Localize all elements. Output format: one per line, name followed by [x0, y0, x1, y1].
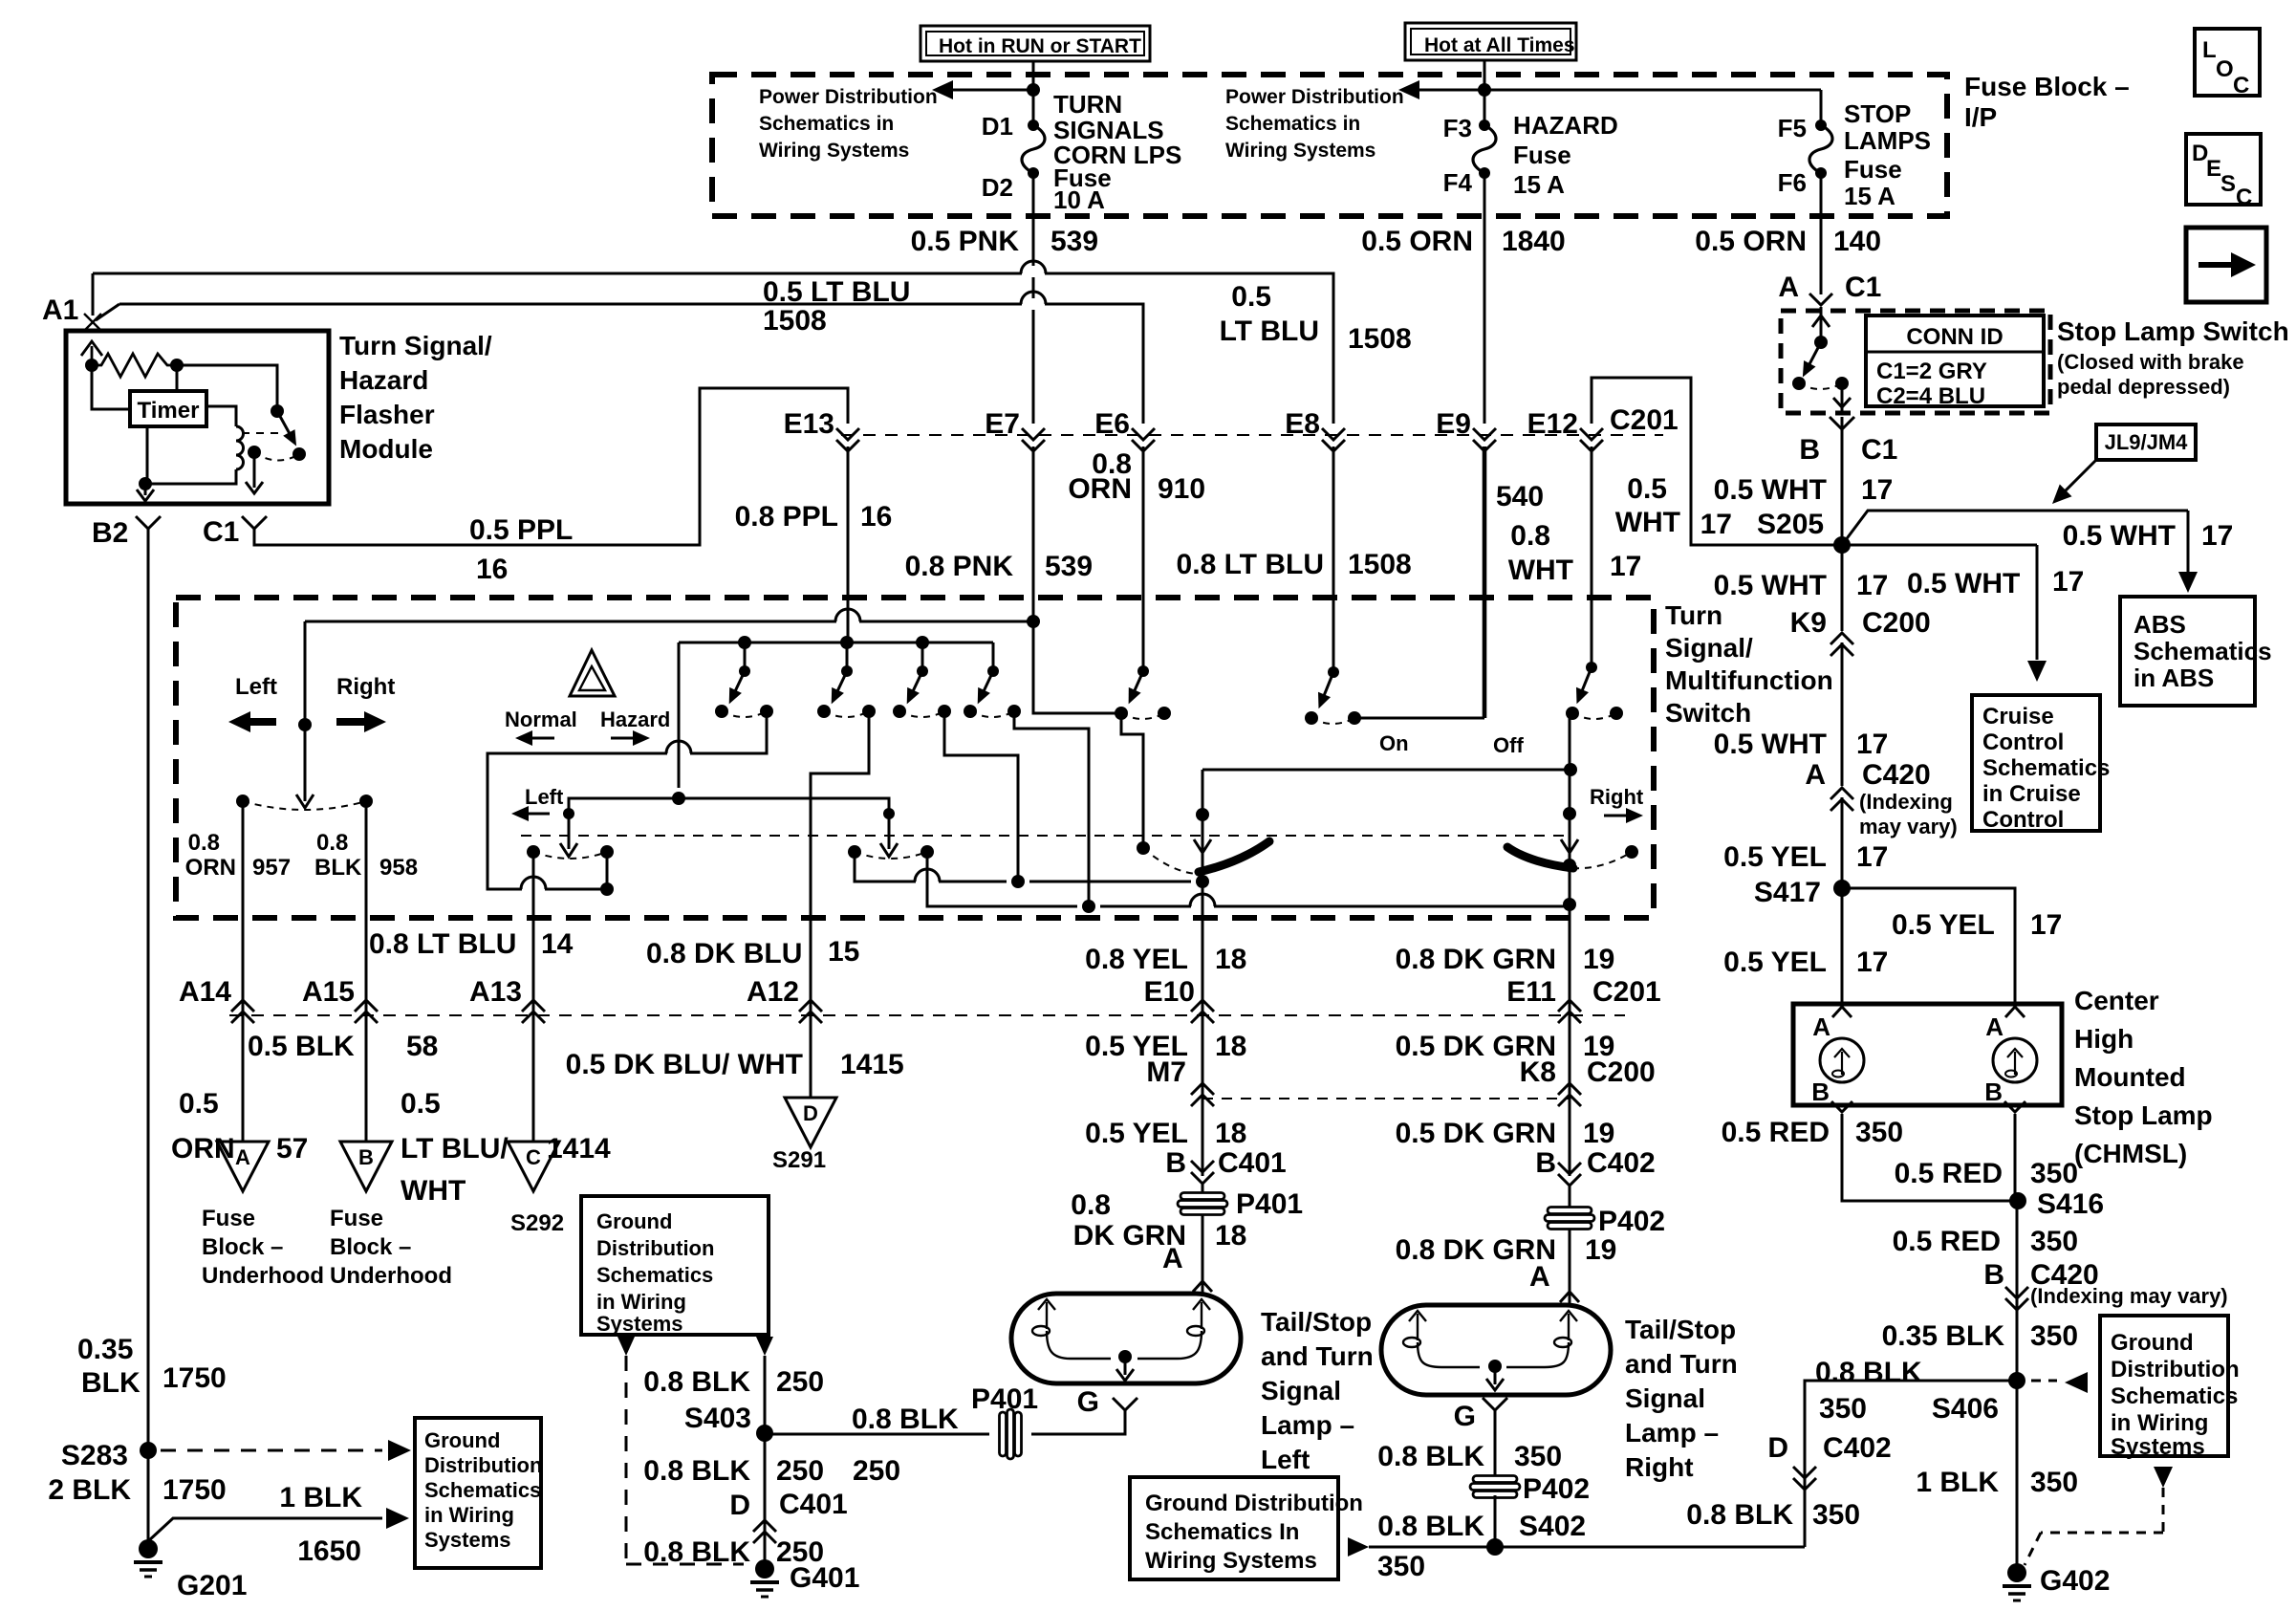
switch pole On E8	[1332, 446, 1335, 672]
svg-text:D2: D2	[982, 173, 1013, 202]
splice S403	[756, 1425, 773, 1442]
wire 1 BLK 1650 to ground box	[148, 1518, 382, 1541]
svg-text:G401: G401	[790, 1562, 859, 1594]
connector E8	[1322, 428, 1345, 440]
svg-text:350: 350	[1855, 1117, 1903, 1148]
svg-text:Systems: Systems	[596, 1312, 683, 1336]
connector C402 D	[1793, 1467, 1816, 1478]
svg-text:(Indexing may vary): (Indexing may vary)	[2030, 1284, 2228, 1308]
wire staircase pole3	[944, 711, 1018, 882]
svg-text:and Turn: and Turn	[1261, 1341, 1374, 1371]
wire from Hot at All Times to fuse F3	[1484, 60, 1486, 90]
svg-text:B: B	[1811, 1078, 1830, 1106]
connector C420	[1830, 799, 1853, 811]
wire E10 column	[1202, 770, 1204, 1021]
triangle D	[785, 1098, 836, 1147]
relay coil	[236, 426, 244, 469]
svg-text:350: 350	[1819, 1393, 1867, 1425]
svg-text:High: High	[2074, 1024, 2134, 1054]
svg-text:1415: 1415	[840, 1049, 904, 1080]
svg-text:Schematics: Schematics	[596, 1263, 713, 1287]
svg-text:P401: P401	[971, 1383, 1038, 1415]
svg-text:C200: C200	[1862, 607, 1931, 639]
svg-text:E9: E9	[1436, 408, 1471, 440]
svg-text:Underhood: Underhood	[202, 1263, 324, 1289]
svg-text:0.8 BLK: 0.8 BLK	[852, 1404, 959, 1435]
svg-text:HAZARD: HAZARD	[1513, 111, 1618, 140]
label box Hot at All Times	[1405, 23, 1576, 60]
svg-text:BLK: BLK	[314, 855, 362, 881]
svg-text:Fuse Block –: Fuse Block –	[1964, 72, 2130, 101]
svg-text:G: G	[1077, 1386, 1099, 1418]
wire from junction to fuse F5	[1484, 89, 1821, 92]
svg-text:0.5: 0.5	[1627, 473, 1667, 505]
module output arrow B2	[137, 484, 154, 501]
svg-text:may vary): may vary)	[1859, 815, 1958, 838]
inline connector P401 ground	[1000, 1412, 1007, 1456]
svg-text:S291: S291	[772, 1147, 826, 1173]
arrow from JL9/JM4	[2061, 460, 2096, 495]
svg-text:WHT: WHT	[1615, 507, 1680, 538]
svg-text:Distribution: Distribution	[424, 1453, 542, 1477]
svg-text:E13: E13	[784, 408, 834, 440]
svg-text:19: 19	[1583, 944, 1614, 975]
svg-text:0.8 BLK: 0.8 BLK	[643, 1455, 750, 1487]
svg-text:Signal: Signal	[1625, 1383, 1705, 1413]
arrow Hazard right	[611, 737, 636, 740]
svg-text:(Closed with brake: (Closed with brake	[2057, 350, 2244, 374]
arrow Normal left	[530, 737, 554, 740]
svg-text:ORN: ORN	[185, 855, 236, 881]
svg-text:0.5 WHT: 0.5 WHT	[1714, 729, 1827, 760]
svg-text:C2=4 BLU: C2=4 BLU	[1876, 383, 1985, 409]
CHMSL left bulb	[1820, 1038, 1864, 1082]
svg-text:2 BLK: 2 BLK	[48, 1474, 131, 1506]
wire 0.8 BLK 350 S406 to C402 D	[1805, 1381, 2017, 1547]
svg-text:0.5 WHT: 0.5 WHT	[1907, 568, 2020, 599]
wire arrow to power distribution right	[1416, 89, 1484, 92]
svg-text:LT BLU: LT BLU	[1220, 316, 1319, 347]
svg-text:A: A	[1778, 272, 1799, 303]
svg-text:L: L	[2202, 37, 2217, 63]
solid left arrow	[228, 711, 276, 732]
svg-text:0.5 YEL: 0.5 YEL	[1085, 1118, 1188, 1149]
svg-text:A1: A1	[42, 294, 78, 326]
svg-text:350: 350	[1377, 1551, 1425, 1582]
svg-text:D1: D1	[982, 112, 1013, 141]
svg-text:S402: S402	[1519, 1511, 1586, 1542]
relay contacts	[292, 447, 306, 461]
resistor	[92, 354, 177, 377]
svg-text:17: 17	[1856, 729, 1888, 760]
svg-text:Fuse: Fuse	[1513, 141, 1571, 169]
wire E6 contact down to turn wafer	[1121, 713, 1143, 848]
wire S205 to E12	[1592, 378, 1842, 545]
svg-text:G201: G201	[177, 1570, 247, 1601]
svg-text:D: D	[729, 1490, 750, 1521]
turn wafer left blade	[563, 808, 574, 819]
wire 0.5 ORN 140 from fuse F6 down	[1820, 173, 1823, 294]
svg-text:A14: A14	[179, 976, 231, 1008]
wire hazard feed to indicator pivot	[304, 621, 307, 725]
svg-text:18: 18	[1215, 1031, 1246, 1062]
svg-text:350: 350	[2030, 1467, 2078, 1498]
svg-text:E12: E12	[1527, 408, 1578, 440]
svg-text:E8: E8	[1285, 408, 1320, 440]
wire E13 into switch	[847, 446, 850, 642]
svg-text:1508: 1508	[763, 305, 827, 337]
svg-text:957: 957	[252, 855, 291, 881]
label box JL9/JM4	[2096, 425, 2196, 460]
wire E9 feed 0.5 ORN 1840 down	[1484, 173, 1486, 424]
svg-text:CONN ID: CONN ID	[1906, 324, 2003, 350]
stop lamp switch output arrow	[1841, 383, 1844, 411]
svg-text:Ground Distribution: Ground Distribution	[1145, 1491, 1363, 1516]
svg-text:0.5 YEL: 0.5 YEL	[1723, 841, 1827, 873]
svg-text:Left: Left	[525, 785, 564, 809]
svg-text:350: 350	[2030, 1226, 2078, 1257]
svg-text:1750: 1750	[162, 1474, 227, 1506]
arrow Right turn	[1604, 815, 1629, 817]
svg-text:C1: C1	[203, 516, 239, 548]
wire L2 to E11	[927, 852, 1077, 906]
svg-text:C1=2 GRY: C1=2 GRY	[1876, 359, 1987, 384]
module output arrow C1	[246, 452, 263, 493]
wire 0.5 WHT 17 stop switch to S205	[1841, 417, 1844, 537]
svg-text:17: 17	[1700, 509, 1732, 540]
wire timer to relay coil	[206, 406, 236, 426]
dashed arrow S406 to ground distribution box	[2031, 1380, 2057, 1382]
E10 blade dashed arc	[1137, 841, 1150, 855]
svg-text:C401: C401	[779, 1489, 848, 1520]
stop lamp switch dashed box	[1781, 311, 2050, 413]
wire resistor to switch pivot	[177, 365, 277, 411]
svg-text:in Wiring: in Wiring	[596, 1290, 686, 1314]
svg-text:O: O	[2216, 56, 2234, 82]
E11 thick blade	[1507, 847, 1573, 868]
svg-text:Stop Lamp Switch: Stop Lamp Switch	[2057, 316, 2289, 346]
svg-text:S205: S205	[1757, 509, 1824, 540]
box Ground Distribution left	[415, 1418, 541, 1568]
svg-text:539: 539	[1045, 551, 1093, 582]
svg-text:958: 958	[379, 855, 418, 881]
left lamp internal common	[1047, 1331, 1111, 1359]
svg-text:G: G	[1454, 1401, 1476, 1432]
wire staircase pole2 to A12	[811, 711, 869, 1021]
svg-text:On: On	[1379, 731, 1409, 755]
svg-text:S406: S406	[1932, 1393, 1999, 1425]
right lamp filaments	[1417, 1314, 1419, 1340]
connectors B2 C1	[136, 516, 161, 529]
indicator contacts	[236, 795, 249, 808]
svg-text:0.35 BLK: 0.35 BLK	[1882, 1320, 2005, 1352]
svg-text:Flasher: Flasher	[339, 400, 435, 429]
tail stop turn signal lamp right	[1381, 1305, 1611, 1395]
wire 0.5 DK GRN 19 K8 C200	[1569, 1021, 1571, 1176]
svg-text:Turn Signal/: Turn Signal/	[339, 331, 492, 360]
left lamp filaments	[1046, 1302, 1048, 1329]
tail stop turn signal lamp left	[1011, 1294, 1241, 1383]
svg-text:0.5 WHT: 0.5 WHT	[1714, 474, 1827, 506]
svg-text:C402: C402	[1823, 1432, 1892, 1464]
right lamp internal common	[1418, 1342, 1480, 1367]
turn signal hazard flasher module box	[66, 331, 329, 504]
svg-text:B: B	[1799, 434, 1820, 466]
wire 0.8 BLK 250 S403 column	[756, 1337, 773, 1356]
wire 350 to G402	[2016, 1310, 2019, 1573]
wire 0.8 BLK 958 to A15	[365, 801, 368, 1021]
pass-through P402 ground	[1473, 1476, 1517, 1483]
svg-text:Block –: Block –	[202, 1234, 283, 1260]
svg-text:0.5 PNK: 0.5 PNK	[911, 226, 1020, 257]
turn wafer right contacts	[848, 845, 861, 859]
svg-text:Tail/Stop: Tail/Stop	[1261, 1307, 1372, 1337]
wire hazard wafer rail	[679, 642, 993, 644]
dashed return to G402	[2154, 1467, 2173, 1488]
solid right arrow	[336, 711, 386, 732]
svg-text:S283: S283	[61, 1440, 128, 1471]
svg-text:A15: A15	[302, 976, 355, 1008]
splice S416	[2009, 1192, 2026, 1209]
wire 0.5 RED 350 CHMSL right down	[2014, 1114, 2017, 1201]
svg-text:A: A	[235, 1145, 250, 1169]
wire 0.5 LT BLU WHT 1414 to triangle C	[532, 1021, 535, 1142]
corner box nav arrow	[2186, 228, 2266, 302]
svg-text:LAMPS: LAMPS	[1844, 126, 1931, 155]
svg-text:0.35: 0.35	[77, 1334, 133, 1365]
svg-text:E10: E10	[1144, 976, 1195, 1008]
svg-text:Mounted: Mounted	[2074, 1062, 2186, 1092]
wire 0.5 YEL 18 M7 C401	[1202, 1021, 1204, 1176]
connector C200	[1830, 644, 1853, 656]
svg-text:B: B	[1165, 1147, 1186, 1179]
ground G402	[2007, 1563, 2026, 1582]
wire 0.5 PPL 16 C1 to E13	[254, 388, 848, 545]
svg-text:Schematics: Schematics	[424, 1478, 541, 1502]
svg-text:Normal: Normal	[505, 708, 577, 731]
svg-text:Module: Module	[339, 434, 433, 464]
svg-text:S403: S403	[684, 1403, 751, 1434]
triangle B	[340, 1142, 392, 1191]
svg-text:S: S	[2220, 171, 2236, 197]
connector B C402	[1558, 1163, 1581, 1174]
svg-text:Control: Control	[1982, 807, 2064, 833]
svg-text:Schematics: Schematics	[2111, 1383, 2238, 1409]
svg-text:Tail/Stop: Tail/Stop	[1625, 1315, 1736, 1344]
svg-text:C420: C420	[1862, 759, 1931, 791]
pass-through P402	[1548, 1208, 1592, 1214]
wire to right lamp	[1569, 1229, 1571, 1305]
svg-text:S417: S417	[1754, 877, 1821, 908]
splice S402	[1486, 1538, 1504, 1556]
svg-text:pedal depressed): pedal depressed)	[2057, 375, 2230, 399]
wire 0.5 LT BLU 1508 line2 to E6	[119, 303, 1022, 306]
pass-through P401	[1180, 1193, 1224, 1200]
wire 0.8 DK GRN 18 to lamp	[1202, 1214, 1204, 1294]
svg-text:0.5 RED: 0.5 RED	[1895, 1158, 2003, 1189]
svg-text:Power Distribution: Power Distribution	[759, 86, 938, 108]
wire 0.8 BLK to S403	[765, 1433, 989, 1436]
fuse STOP LAMPS 15A	[1815, 120, 1827, 131]
wire staircase pole4	[1014, 711, 1089, 906]
svg-text:Cruise: Cruise	[1982, 704, 2054, 729]
svg-text:A: A	[1162, 1243, 1183, 1274]
wire to S402	[1494, 1495, 1497, 1547]
svg-text:58: 58	[406, 1031, 438, 1062]
svg-text:0.8: 0.8	[316, 830, 348, 856]
svg-text:0.5 YEL: 0.5 YEL	[1892, 909, 1995, 941]
svg-text:0.5 ORN: 0.5 ORN	[1361, 226, 1473, 257]
svg-text:S416: S416	[2037, 1188, 2104, 1220]
svg-text:Right: Right	[1625, 1452, 1694, 1482]
svg-text:18: 18	[1215, 1220, 1246, 1252]
stop lamp switch contacts	[1792, 377, 1806, 390]
wire 0.5 RED 350 CHMSL left to S416	[1842, 1114, 2018, 1201]
wire 0.8 BLK 350 S402 horizontal	[1369, 1546, 1805, 1549]
svg-text:Left: Left	[1261, 1445, 1310, 1474]
connector A C1 to stop lamp switch	[1809, 294, 1832, 305]
svg-text:14: 14	[541, 928, 574, 960]
svg-text:C402: C402	[1587, 1147, 1656, 1179]
svg-text:E11: E11	[1506, 976, 1556, 1008]
dashed wire S283 to ground box	[161, 1449, 382, 1452]
svg-text:0.8: 0.8	[1071, 1189, 1111, 1221]
svg-text:B2: B2	[92, 517, 128, 549]
svg-text:C: C	[2233, 73, 2249, 98]
svg-text:350: 350	[1514, 1441, 1562, 1472]
svg-text:K9: K9	[1790, 607, 1827, 639]
svg-text:C201: C201	[1610, 404, 1679, 436]
svg-text:250: 250	[776, 1455, 824, 1487]
svg-text:350: 350	[2030, 1158, 2078, 1189]
svg-text:D: D	[803, 1101, 818, 1125]
timer box	[130, 391, 206, 426]
svg-text:0.8 LT BLU: 0.8 LT BLU	[1177, 549, 1324, 580]
svg-text:Signal: Signal	[1261, 1376, 1341, 1405]
hazard wafer pole at x=1039	[987, 665, 999, 677]
svg-text:350: 350	[1812, 1499, 1860, 1531]
wire 0.5 WHT 17 to cruise control	[1842, 544, 2037, 547]
svg-text:Timer: Timer	[138, 398, 200, 424]
svg-text:Fuse: Fuse	[330, 1206, 383, 1231]
relay link dashed	[242, 432, 283, 434]
svg-text:Wiring Systems: Wiring Systems	[1225, 140, 1375, 162]
wire resistor to timer	[176, 365, 179, 391]
wire staircase pole1 to left wafer	[690, 711, 767, 753]
wire turn wafer bridge	[569, 798, 889, 814]
box Cruise Control Schematics	[1972, 695, 2100, 831]
svg-text:0.5: 0.5	[401, 1088, 441, 1120]
svg-text:18: 18	[1215, 944, 1246, 975]
wire left node to timer	[92, 365, 130, 409]
svg-text:0.8: 0.8	[188, 830, 220, 856]
splice S417	[1833, 880, 1851, 897]
svg-text:0.5 RED: 0.5 RED	[1893, 1226, 2001, 1257]
wire coil and timer to B2 node	[145, 469, 236, 484]
svg-text:C200: C200	[1587, 1056, 1656, 1088]
wire 0.5 YEL 17 S417 to CHMSL right	[1842, 888, 2015, 1004]
ground G401	[755, 1559, 774, 1578]
wire left wafer right contact down	[606, 852, 609, 889]
svg-text:350: 350	[2030, 1320, 2078, 1352]
wire A13 exit	[532, 852, 535, 1021]
svg-text:S292: S292	[510, 1210, 564, 1236]
hazard wafer pole at x=779	[739, 665, 750, 677]
svg-text:539: 539	[1051, 226, 1098, 257]
svg-text:and Turn: and Turn	[1625, 1349, 1738, 1379]
svg-text:0.8 BLK: 0.8 BLK	[643, 1536, 750, 1568]
hazard wafer pole E6	[1142, 446, 1145, 671]
stop lamp switch blade	[1808, 342, 1821, 369]
svg-text:A: A	[1529, 1261, 1550, 1293]
svg-text:STOP: STOP	[1844, 99, 1911, 128]
svg-text:F4: F4	[1443, 168, 1473, 197]
svg-text:1750: 1750	[162, 1362, 227, 1394]
svg-text:P402: P402	[1523, 1473, 1590, 1505]
svg-text:Power Distribution: Power Distribution	[1225, 86, 1404, 108]
svg-text:0.8: 0.8	[1510, 520, 1550, 552]
svg-text:Hazard: Hazard	[600, 708, 670, 731]
svg-text:15: 15	[828, 936, 859, 968]
svg-text:0.5: 0.5	[179, 1088, 219, 1120]
svg-text:Wiring Systems: Wiring Systems	[1145, 1548, 1317, 1574]
svg-text:(Indexing: (Indexing	[1859, 790, 1953, 814]
svg-text:140: 140	[1833, 226, 1881, 257]
connector E13	[836, 428, 859, 440]
svg-text:17: 17	[1856, 841, 1888, 873]
svg-text:F5: F5	[1778, 114, 1807, 142]
svg-text:Hot at All Times: Hot at All Times	[1424, 34, 1575, 56]
wire E7 down to E6 wafer contact	[1033, 621, 1121, 713]
CONN ID table	[1866, 316, 2044, 406]
dashed connector line M7 K8	[1202, 1098, 1570, 1099]
svg-text:F3: F3	[1443, 114, 1472, 142]
svg-text:Left: Left	[235, 674, 277, 700]
svg-text:17: 17	[2201, 520, 2233, 552]
svg-text:0.8 BLK: 0.8 BLK	[1815, 1357, 1922, 1388]
dashed connector line C401 C402	[229, 1014, 1625, 1016]
turn signal multifunction switch dashed box	[176, 598, 1654, 918]
splice S205	[1833, 536, 1851, 554]
dashed connector line C201 top	[841, 434, 1663, 436]
svg-text:Hazard: Hazard	[339, 365, 428, 395]
svg-text:BLK: BLK	[81, 1367, 141, 1399]
svg-text:Center: Center	[2074, 986, 2159, 1015]
resistor nodes	[85, 359, 98, 372]
stop lamp switch input	[1820, 307, 1823, 342]
svg-text:C: C	[526, 1145, 541, 1169]
svg-text:Switch: Switch	[1665, 698, 1751, 728]
svg-text:B: B	[358, 1145, 374, 1169]
svg-text:Distribution: Distribution	[596, 1236, 714, 1260]
switch pole Off E12	[1591, 446, 1593, 667]
box Ground Distribution right	[2100, 1316, 2228, 1456]
box ABS Schematics in ABS	[2120, 597, 2255, 706]
connector E9	[1473, 428, 1496, 440]
svg-text:Lamp –: Lamp –	[1625, 1418, 1719, 1448]
svg-text:Systems: Systems	[2111, 1434, 2205, 1460]
svg-text:10 A: 10 A	[1053, 185, 1105, 214]
svg-text:in Cruise: in Cruise	[1982, 781, 2081, 807]
svg-text:Schematics: Schematics	[2134, 637, 2272, 665]
wire E11 column	[1569, 718, 1571, 1021]
svg-text:1840: 1840	[1502, 226, 1566, 257]
svg-text:0.5 PPL: 0.5 PPL	[469, 514, 573, 546]
svg-text:Schematics in: Schematics in	[1225, 113, 1360, 135]
wire E7 into switch	[1032, 446, 1035, 621]
svg-text:E6: E6	[1094, 408, 1130, 440]
ground G201	[139, 1539, 158, 1558]
